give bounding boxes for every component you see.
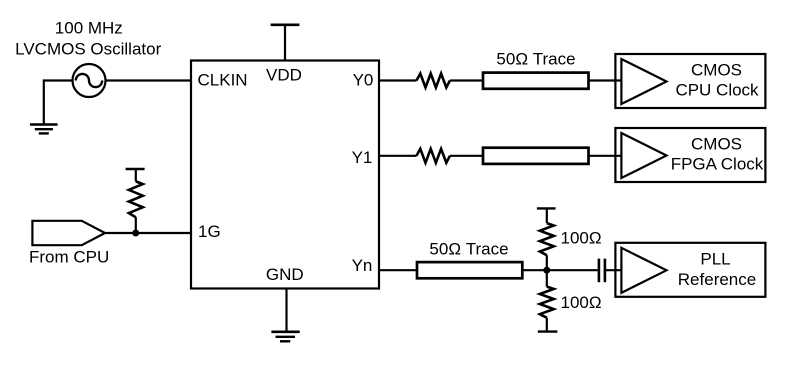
oscillator X1 [73, 64, 106, 97]
svg-text:Yn: Yn [352, 256, 373, 275]
buffer U4 (PLL reference input) [621, 248, 666, 293]
wire: resistor R2 to trace [450, 79, 483, 81]
wire: resistor R4 to junction [546, 255, 548, 270]
wire: Yn pin to trace [379, 269, 417, 271]
IC U1 (clock buffer) [191, 61, 379, 289]
load box: CMOS FPGA Clock [615, 128, 765, 182]
label: oscillator value "100 MHz / LVCMOS Oscillator" [15, 19, 161, 59]
wire: resistor R5 to rail [546, 318, 548, 332]
svg-text:50Ω Trace: 50Ω Trace [429, 240, 508, 259]
wire: Y0 pin to resistor R2 [379, 79, 417, 81]
label "CMOS FPGA Clock" [671, 135, 764, 174]
svg-text:100Ω: 100Ω [561, 293, 602, 312]
transmission line: 50 ohm trace (Y1) [483, 148, 589, 164]
resistor R3 (series on Y1) [417, 149, 450, 163]
wire: GND pin to ground [285, 289, 287, 332]
wire: rail to resistor R4 [546, 208, 548, 223]
wire: oscillator left terminal to ground [44, 81, 73, 125]
transmission line: 50 ohm trace (Yn) [417, 262, 522, 278]
power rail (termination top) [537, 207, 556, 209]
wire: From CPU to 1G pin [105, 232, 191, 234]
buffer U3 (FPGA clock input) [621, 133, 666, 178]
resistor R5 (100 ohm pull-down) [540, 287, 554, 318]
buffer U2 (CPU clock input) [621, 59, 666, 104]
connector: From CPU [32, 221, 105, 245]
capacitor C1 [599, 259, 605, 283]
svg-text:Y0: Y0 [353, 71, 374, 90]
wire: oscillator output to CLKIN pin [106, 79, 192, 81]
load box: CMOS CPU Clock [615, 54, 765, 108]
svg-text:Reference: Reference [678, 270, 756, 289]
transmission line: 50 ohm trace (Y0) [483, 73, 589, 89]
svg-text:VDD: VDD [266, 66, 302, 85]
power rail VDD [271, 25, 300, 61]
svg-text:GND: GND [266, 265, 304, 284]
label "PLL Reference" [678, 250, 756, 290]
wire: Y1 pin to resistor R3 [379, 155, 417, 157]
wire: trace to capacitor C1 [522, 269, 597, 271]
svg-text:100Ω: 100Ω [561, 229, 602, 248]
svg-text:CMOS: CMOS [691, 135, 742, 154]
svg-text:CLKIN: CLKIN [198, 71, 248, 90]
resistor R1 (pull-up on 1G) [129, 181, 143, 217]
wire: rail to resistor R1 [135, 169, 137, 181]
wire: resistor R1 to 1G junction [135, 217, 137, 233]
wire: junction to resistor R5 [546, 270, 548, 286]
svg-text:1G: 1G [198, 222, 221, 241]
power rail (pull-up) [126, 168, 145, 170]
wire: trace to FPGA clock buffer [589, 155, 622, 157]
svg-text:CPU Clock: CPU Clock [675, 81, 759, 100]
load box: PLL Reference [615, 243, 765, 297]
svg-text:FPGA Clock: FPGA Clock [671, 155, 764, 174]
resistor R4 (100 ohm pull-up) [540, 223, 554, 255]
svg-text:50Ω Trace: 50Ω Trace [496, 50, 575, 69]
node: divider junction [543, 267, 550, 274]
wire: resistor R3 to trace [450, 155, 483, 157]
node: 1G junction [132, 230, 139, 237]
wire: trace to CPU clock buffer [589, 79, 622, 81]
svg-text:From CPU: From CPU [29, 248, 109, 267]
power rail (termination bottom) [538, 330, 558, 332]
wire: capacitor C1 to PLL buffer [605, 269, 622, 271]
svg-text:CMOS: CMOS [691, 61, 742, 80]
resistor R2 (series on Y0) [417, 74, 450, 88]
svg-text:Y1: Y1 [352, 148, 373, 167]
ground (IC GND) [271, 332, 299, 342]
svg-text:PLL: PLL [700, 250, 730, 269]
svg-text:LVCMOS Oscillator: LVCMOS Oscillator [15, 40, 161, 59]
ground (oscillator) [30, 125, 58, 134]
svg-text:100 MHz: 100 MHz [55, 19, 123, 38]
label "CMOS CPU Clock" [675, 61, 759, 100]
